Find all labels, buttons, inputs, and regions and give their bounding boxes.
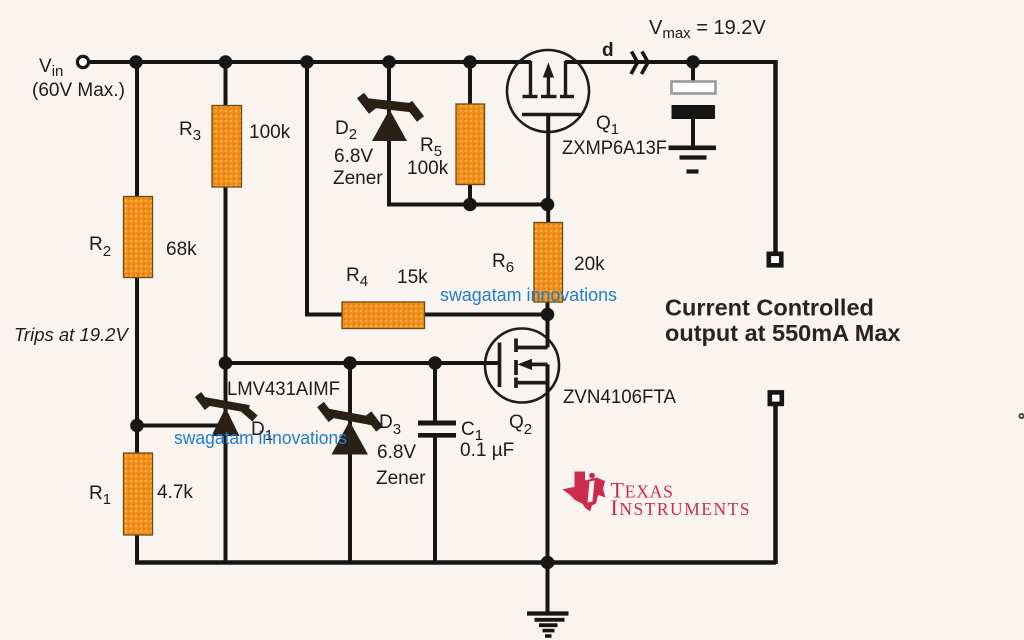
svg-text:100k: 100k: [249, 122, 291, 143]
svg-text:INSTRUMENTS: INSTRUMENTS: [611, 495, 752, 520]
svg-text:Current Controlled: Current Controlled: [665, 295, 874, 321]
svg-text:6.8V: 6.8V: [334, 146, 373, 167]
svg-text:20k: 20k: [574, 254, 605, 275]
svg-text:Trips at 19.2V: Trips at 19.2V: [14, 324, 129, 345]
svg-text:(60V Max.): (60V Max.): [32, 80, 125, 101]
svg-text:0.1 µF: 0.1 µF: [460, 440, 514, 461]
svg-text:6.8V: 6.8V: [377, 442, 416, 463]
svg-text:output at 550mA Max: output at 550mA Max: [665, 320, 900, 346]
svg-text:100k: 100k: [407, 158, 449, 179]
svg-text:68k: 68k: [166, 239, 197, 260]
svg-text:swagatam innovations: swagatam innovations: [440, 284, 617, 305]
svg-text:Zener: Zener: [376, 468, 426, 489]
svg-text:Zener: Zener: [333, 168, 383, 189]
svg-text:15k: 15k: [397, 267, 428, 288]
svg-text:ZXMP6A13F: ZXMP6A13F: [562, 138, 667, 159]
svg-text:LMV431AIMF: LMV431AIMF: [227, 379, 340, 400]
svg-text:4.7k: 4.7k: [157, 482, 193, 503]
svg-text:swagatam innovations: swagatam innovations: [174, 427, 347, 448]
svg-text:d: d: [602, 40, 614, 61]
svg-text:ZVN4106FTA: ZVN4106FTA: [563, 387, 676, 408]
